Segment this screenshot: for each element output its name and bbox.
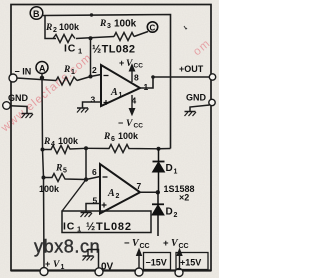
resistor R6 bbox=[86, 145, 159, 153]
wire link to pin 6 bbox=[86, 177, 100, 180]
label +Vcc bottom bbox=[163, 238, 189, 250]
label -Vcc bottom bbox=[124, 238, 150, 250]
wire 0V bbox=[88, 250, 99, 269]
-15V supply arrow bbox=[137, 249, 142, 269]
junction output corner bbox=[151, 75, 155, 79]
wire R2 to R3 bbox=[76, 37, 114, 39]
svg-text:+: + bbox=[119, 58, 124, 68]
wire R4R6 junction down to A2 pin6 bbox=[85, 148, 87, 179]
node C bbox=[147, 22, 157, 33]
svg-text:CC: CC bbox=[134, 123, 144, 130]
svg-text:A: A bbox=[39, 64, 46, 74]
svg-text:GND: GND bbox=[186, 93, 207, 103]
node A bbox=[36, 62, 48, 74]
resistor R2 bbox=[53, 35, 75, 43]
ground at A1 pin3 bbox=[77, 108, 89, 113]
svg-text:R: R bbox=[43, 137, 50, 147]
leader line from IC1 box to pin6 node bbox=[63, 180, 87, 211]
terminal -IN bbox=[9, 74, 17, 82]
junction pin6 node bbox=[84, 177, 88, 181]
svg-text:2: 2 bbox=[116, 193, 120, 200]
0V ground bbox=[83, 249, 95, 261]
label R1 bbox=[63, 65, 75, 76]
diode D1 bbox=[153, 149, 165, 193]
svg-text:IC: IC bbox=[63, 221, 75, 233]
wire -IN to R1 bbox=[17, 78, 57, 81]
svg-text:1: 1 bbox=[77, 225, 81, 234]
label +Vcc bbox=[119, 58, 143, 70]
svg-text:CC: CC bbox=[179, 243, 189, 250]
svg-text:½TL082: ½TL082 bbox=[92, 44, 135, 56]
terminal +V1 bbox=[40, 268, 48, 276]
label R6 100k bbox=[103, 131, 139, 143]
junction on top rail bbox=[90, 13, 93, 16]
ground right bbox=[185, 112, 197, 117]
paper noise bbox=[0, 0, 219, 278]
wire R3 right lead to node C bbox=[134, 32, 148, 37]
svg-text:R: R bbox=[55, 164, 62, 174]
svg-text:− IN: − IN bbox=[15, 67, 32, 77]
svg-text:1: 1 bbox=[119, 92, 123, 99]
resistor R5 bbox=[44, 174, 87, 182]
junction diode chain top bbox=[157, 147, 161, 151]
stub A to wire bbox=[41, 74, 43, 78]
wire A2 pin5 to ground bbox=[86, 204, 100, 213]
junction R5 tap bbox=[42, 176, 46, 180]
junction diode mid bbox=[156, 190, 160, 194]
svg-text:1: 1 bbox=[174, 169, 178, 176]
wire: feedback junction down to pin 2 bbox=[90, 39, 92, 77]
svg-text:1: 1 bbox=[71, 69, 75, 76]
box -15V bbox=[144, 253, 171, 270]
junction R2-R3 bbox=[89, 36, 93, 40]
svg-text:A: A bbox=[107, 188, 115, 199]
stray mark bbox=[184, 26, 187, 29]
junction at pin2 node bbox=[89, 75, 93, 79]
-Vcc arrow at A1 pin 4 bbox=[129, 95, 134, 115]
terminal -15V bbox=[135, 268, 143, 276]
label IC1 bbox=[64, 43, 82, 56]
resistor R1 bbox=[56, 77, 77, 85]
IC1 label box bbox=[62, 211, 151, 233]
wire R1 to pin2 bbox=[77, 75, 101, 81]
svg-text:7: 7 bbox=[137, 181, 142, 191]
label R5 bbox=[55, 164, 67, 175]
svg-text:−: − bbox=[124, 238, 130, 249]
svg-text:IC: IC bbox=[64, 43, 76, 55]
wire A1 pin3 to ground bbox=[83, 102, 102, 108]
wire GND left bbox=[10, 106, 27, 114]
svg-text:+OUT: +OUT bbox=[179, 64, 204, 74]
diode D2 bbox=[152, 192, 164, 236]
terminal GND left bbox=[3, 102, 11, 110]
svg-text:CC: CC bbox=[134, 63, 144, 70]
svg-text:2: 2 bbox=[92, 65, 97, 75]
wire to right vertical bbox=[159, 148, 171, 150]
svg-text:1: 1 bbox=[61, 264, 65, 271]
svg-text:+15V: +15V bbox=[180, 258, 201, 268]
svg-text:0V: 0V bbox=[101, 262, 114, 273]
svg-text:C: C bbox=[150, 24, 156, 33]
svg-text:GND: GND bbox=[8, 93, 29, 103]
svg-text:4: 4 bbox=[51, 141, 55, 148]
svg-text:2: 2 bbox=[174, 212, 178, 219]
svg-text:CC: CC bbox=[140, 243, 150, 250]
ground at A2 pin5 bbox=[81, 213, 93, 218]
node B bbox=[30, 7, 43, 20]
svg-text:D: D bbox=[166, 207, 173, 218]
svg-text:100k: 100k bbox=[59, 22, 80, 32]
ground left bbox=[22, 114, 34, 119]
svg-text:+: + bbox=[163, 238, 169, 249]
terminal GND right bbox=[209, 99, 215, 105]
wire A2 output bbox=[140, 191, 158, 193]
+Vcc arrow at A1 pin 8 bbox=[129, 65, 134, 83]
svg-text:6: 6 bbox=[92, 167, 97, 177]
label D2 bbox=[166, 207, 178, 220]
op-amp A1 bbox=[101, 65, 140, 106]
label IC1 bottom bbox=[63, 221, 81, 234]
resistor R3 bbox=[114, 33, 134, 41]
svg-text:8: 8 bbox=[134, 73, 139, 83]
svg-text:3: 3 bbox=[107, 23, 111, 30]
wire: node A column down bbox=[42, 78, 44, 268]
svg-text:1: 1 bbox=[78, 47, 82, 56]
wire: node B feedback top rail to right side bbox=[43, 15, 171, 149]
svg-text:×2: ×2 bbox=[179, 193, 189, 203]
junction R4 tap bbox=[41, 148, 45, 152]
label R3 100k bbox=[99, 19, 137, 31]
svg-text:5: 5 bbox=[63, 168, 67, 175]
+15V supply arrow bbox=[177, 249, 182, 270]
svg-text:R: R bbox=[63, 65, 70, 75]
svg-text:2: 2 bbox=[53, 27, 57, 34]
terminal 0V bbox=[95, 268, 103, 276]
svg-text:100k: 100k bbox=[58, 136, 79, 146]
red watermark fragment top right bbox=[191, 37, 213, 58]
svg-text:100k: 100k bbox=[114, 19, 137, 30]
label R2 100k bbox=[45, 22, 80, 34]
svg-text:100k: 100k bbox=[118, 131, 139, 141]
junction R4-R6 bbox=[84, 146, 88, 150]
svg-text:R: R bbox=[103, 132, 110, 142]
svg-text:−15V: −15V bbox=[146, 258, 167, 268]
box +15V bbox=[176, 253, 208, 270]
svg-text:ybx8.cn: ybx8.cn bbox=[34, 237, 100, 257]
wire: drop from B rail to R2 bbox=[45, 16, 56, 39]
terminal +OUT bbox=[209, 74, 215, 80]
op-amp A2 bbox=[100, 164, 140, 214]
label +V1 bbox=[45, 259, 65, 271]
svg-text:6: 6 bbox=[111, 136, 115, 143]
svg-text:D: D bbox=[166, 163, 173, 174]
label D1 bbox=[166, 163, 178, 176]
resistor R4 bbox=[43, 146, 87, 154]
wire bottom rail bbox=[11, 269, 211, 271]
border frame (outer schematic box) bbox=[11, 5, 211, 271]
svg-text:R: R bbox=[99, 19, 106, 29]
terminal +15V bbox=[175, 269, 183, 277]
svg-text:3: 3 bbox=[91, 95, 96, 105]
wire A1 output to +OUT bbox=[140, 77, 210, 88]
svg-text:V: V bbox=[126, 59, 133, 69]
label R4 100k bbox=[43, 136, 79, 148]
svg-text:½TL082: ½TL082 bbox=[86, 221, 132, 233]
svg-text:V: V bbox=[53, 260, 60, 270]
wire GND right bbox=[190, 105, 210, 112]
svg-text:R: R bbox=[45, 23, 52, 33]
svg-text:+: + bbox=[45, 259, 50, 269]
label -Vcc bbox=[118, 118, 143, 130]
red watermark www.elecfans.com bbox=[0, 52, 95, 135]
svg-text:V: V bbox=[126, 119, 133, 129]
svg-text:1: 1 bbox=[144, 82, 149, 92]
svg-text:−: − bbox=[118, 118, 123, 128]
junction node A bbox=[40, 76, 44, 80]
svg-text:100k: 100k bbox=[39, 184, 60, 194]
svg-text:A: A bbox=[110, 87, 118, 98]
svg-text:B: B bbox=[33, 9, 40, 19]
